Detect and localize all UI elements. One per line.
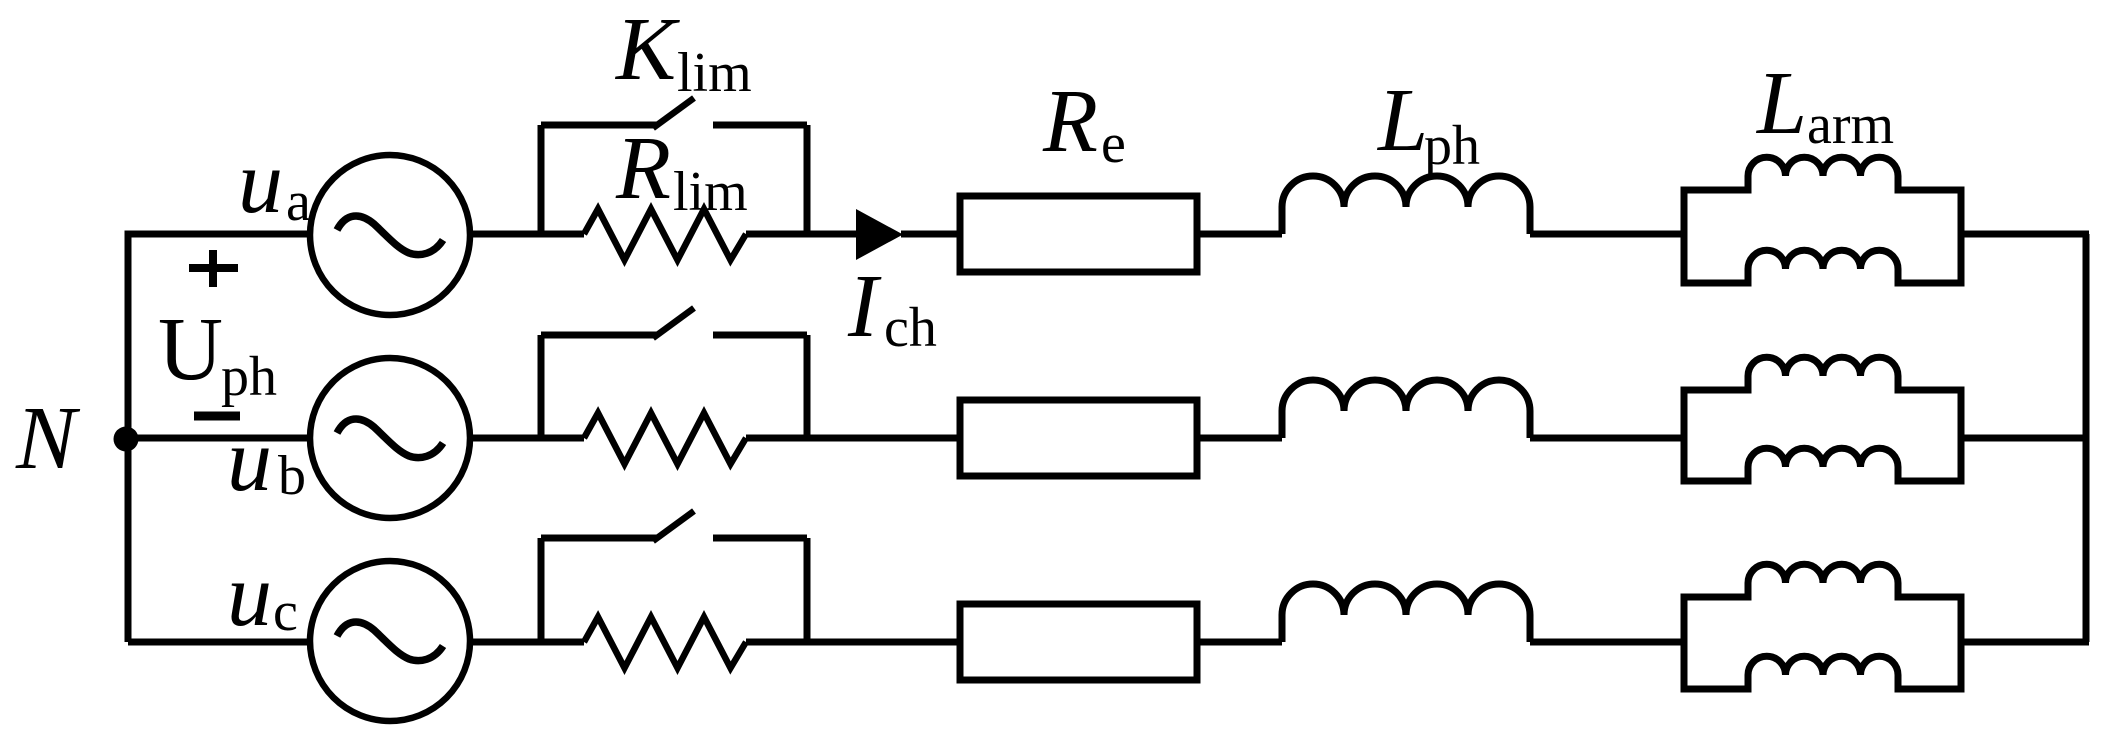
wire phase b: Lph to Larm xyxy=(1530,435,1684,442)
wire phase b: Larm to bus xyxy=(1961,435,2089,442)
wire phase a: source to Klim block xyxy=(470,231,584,238)
switch row c: blade xyxy=(653,511,694,541)
resistor Re row c box xyxy=(960,604,1197,680)
svg-text:L: L xyxy=(1755,54,1807,153)
voltage source ub circle xyxy=(310,358,470,518)
arrow Ich xyxy=(856,209,903,260)
switch row c: left branch segment xyxy=(541,535,657,542)
svg-text:c: c xyxy=(273,581,298,643)
switch Klim row a: blade xyxy=(653,98,694,128)
svg-text:u: u xyxy=(238,133,283,232)
switch row b: left branch segment xyxy=(541,332,657,339)
svg-text:lim: lim xyxy=(673,161,748,223)
switch Klim row a: left branch segment xyxy=(541,122,657,129)
wire phase c: Re to Lph xyxy=(1197,639,1282,646)
svg-text:K: K xyxy=(614,0,680,99)
switch Klim row a: right stub xyxy=(804,125,811,234)
wire phase b: Re to Lph xyxy=(1197,435,1282,442)
voltage source uc sine xyxy=(337,622,443,661)
wire phase a: Rlim block to arrow xyxy=(746,231,857,238)
resistor row b zigzag xyxy=(584,413,746,464)
svg-text:ch: ch xyxy=(884,297,937,359)
wire phase a: Larm to bus xyxy=(1961,231,2089,238)
svg-text:N: N xyxy=(15,389,81,488)
wire phase b: block to Re xyxy=(746,435,958,442)
inductor Lph row a xyxy=(1282,176,1530,234)
switch row b: left stub xyxy=(538,335,545,438)
svg-text:b: b xyxy=(278,445,306,507)
svg-text:U: U xyxy=(158,300,223,399)
wire right bus vertical xyxy=(2083,234,2090,642)
switch row b: blade xyxy=(653,308,694,338)
inductor pair Larm row c xyxy=(1684,564,1961,689)
svg-text:a: a xyxy=(286,171,311,233)
svg-text:lim: lim xyxy=(677,42,752,104)
plus sign xyxy=(189,250,238,287)
resistor Re row a box xyxy=(960,196,1197,272)
wire phase c: Larm to bus xyxy=(1961,639,2089,646)
node N dot xyxy=(114,427,139,452)
switch row c: right branch segment xyxy=(713,535,807,542)
svg-text:ph: ph xyxy=(1424,115,1480,177)
voltage source ua sine xyxy=(337,216,443,255)
svg-text:I: I xyxy=(847,257,882,356)
svg-text:L: L xyxy=(1376,71,1428,170)
switch row c: left stub xyxy=(538,538,545,642)
minus sign xyxy=(194,412,240,421)
wire phase c: block to Re xyxy=(746,639,958,646)
wire phase b: source to Klim block xyxy=(470,435,584,442)
svg-text:R: R xyxy=(1042,72,1098,171)
wire left rail N vertical xyxy=(125,234,132,642)
resistor row c zigzag xyxy=(584,617,746,668)
voltage source ua circle xyxy=(310,155,470,315)
switch row b: right branch segment xyxy=(713,332,807,339)
inductor Lph row b xyxy=(1282,380,1530,438)
wire phase c: source to block xyxy=(470,639,584,646)
voltage source uc circle xyxy=(310,561,470,721)
svg-text:arm: arm xyxy=(1807,94,1894,156)
switch row c: right stub xyxy=(804,538,811,642)
wire phase a: rail to source xyxy=(125,231,310,238)
voltage source ub sine xyxy=(337,419,443,458)
wire phase b: rail to source xyxy=(128,435,309,442)
switch Klim row a: left stub xyxy=(538,125,545,234)
wire phase a: arrow to Re xyxy=(901,231,958,238)
svg-text:u: u xyxy=(227,546,272,645)
svg-text:u: u xyxy=(227,411,272,510)
inductor pair Larm row b xyxy=(1684,357,1961,481)
switch Klim row a: right branch segment xyxy=(713,122,807,129)
resistor Rlim row a zigzag xyxy=(584,209,746,260)
svg-text:R: R xyxy=(615,119,671,218)
wire phase a: Re to Lph xyxy=(1197,231,1282,238)
wire phase a: Lph to Larm xyxy=(1530,231,1684,238)
inductor pair Larm row a xyxy=(1684,157,1961,283)
svg-text:e: e xyxy=(1101,113,1126,175)
resistor Re row b box xyxy=(960,400,1197,476)
inductor Lph row c xyxy=(1282,584,1530,642)
wire phase c: rail to source xyxy=(128,639,309,646)
wire phase c: Lph to Larm xyxy=(1530,639,1684,646)
svg-text:ph: ph xyxy=(221,346,277,408)
switch row b: right stub xyxy=(804,335,811,438)
